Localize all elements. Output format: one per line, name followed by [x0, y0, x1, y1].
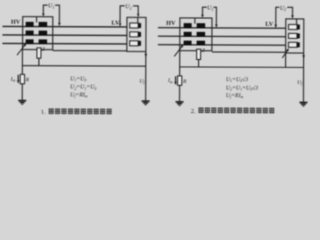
transformer T2 tank circuit 2	[180, 18, 212, 51]
wire fault path to earth conductor circuit 2	[285, 53, 287, 67]
transformer T2 secondary winding bars	[197, 23, 206, 45]
resistor R1 body	[20, 74, 24, 83]
breakdown device slash on T1	[17, 45, 25, 55]
voltage U2 arrow to LV box circuit 1	[137, 14, 140, 17]
wire neutral N circuit 2	[212, 51, 286, 53]
transformer T1 primary winding bars	[26, 22, 34, 44]
wire LV load core stub circuit 1	[137, 17, 139, 23]
fault slash on LV load circuit 2	[282, 50, 287, 58]
LV load box circuit 1	[127, 17, 146, 51]
LV load box circuit 2	[286, 19, 304, 53]
svg-text:1.: 1.	[41, 109, 46, 116]
wire Uf branch circuit 1	[145, 52, 147, 102]
transformer T1 secondary winding bars	[39, 22, 48, 44]
wire LV load core stub circuit 2	[296, 19, 298, 25]
svg-text:U1: U1	[48, 4, 54, 10]
wire earth conductor circuit 2	[180, 66, 304, 69]
voltage U2 arrow to line circuit 1	[119, 23, 122, 26]
current Im arrow circuit 1	[17, 75, 19, 81]
fault arrowhead on LV load circuit 2	[286, 48, 289, 51]
impedance Z1 body	[37, 48, 41, 58]
wire Z1 to earth conductor	[38, 58, 40, 65]
svg-text:2.: 2.	[191, 108, 196, 115]
svg-text:R: R	[25, 77, 30, 83]
svg-text:U2: U2	[280, 6, 286, 12]
svg-text:U1=U0: U1=U0	[70, 76, 86, 82]
wire neutral N circuit 1	[53, 50, 127, 52]
transformer T1 tank circuit 1	[23, 17, 53, 50]
svg-text:U2: U2	[125, 4, 131, 10]
voltage U2 measurement bracket circuit 1	[120, 6, 138, 24]
svg-text:R: R	[182, 79, 187, 85]
voltage U1 measurement bracket circuit 2	[202, 7, 216, 24]
breakdown device slash on T2	[174, 46, 182, 56]
wire T2 tank to resistor R2	[179, 51, 181, 76]
voltage U2 arrow to LV box circuit 2	[291, 15, 294, 18]
wire phase L3 circuit 1	[2, 42, 126, 45]
wire R1 to ground	[21, 84, 23, 101]
wire phase L2 circuit 1	[2, 34, 126, 37]
svg-text:HV: HV	[11, 19, 21, 26]
wire earth conductor circuit 1	[22, 65, 145, 68]
wire Z2 to earth conductor	[198, 59, 200, 66]
LV load winding 3 circuit 2	[288, 42, 299, 47]
voltage Uf arrow circuit 2	[302, 55, 305, 59]
breakdown device arrowhead on T1	[23, 43, 26, 46]
wire T1 core stub	[36, 17, 38, 23]
resistor R2 body	[177, 76, 181, 85]
wire T2 core stub	[194, 18, 196, 24]
LV load winding 2 circuit 2	[289, 33, 300, 38]
voltage U1 arrow to transformer tank	[42, 14, 45, 17]
impedance Z2 body	[197, 49, 201, 59]
wire Uf branch circuit 2	[302, 53, 304, 102]
ground below R1	[18, 101, 26, 105]
svg-text:U1=U0√3: U1=U0√3	[226, 76, 248, 83]
breakdown device arrowhead on T2	[181, 44, 184, 47]
svg-text:HV: HV	[166, 20, 176, 27]
caption 1 chinese text blobs	[49, 108, 112, 114]
wire phase L1 circuit 2	[158, 27, 286, 30]
LV load winding 1 circuit 1	[130, 23, 141, 28]
voltage U1 arrow to line circuit 2	[215, 24, 218, 27]
ground below R2	[176, 102, 184, 106]
LV load winding 1 circuit 2	[289, 24, 300, 29]
voltage U1 arrow to transformer tank circuit 2	[201, 15, 204, 18]
svg-text:LV: LV	[265, 21, 274, 28]
LV load winding 3 circuit 1	[130, 41, 141, 46]
equations circuit 2	[226, 76, 258, 99]
ground below Uf circuit 2	[299, 102, 307, 106]
LV load winding 2 circuit 1	[130, 32, 141, 37]
wire R2 to ground	[179, 85, 181, 102]
wire phase L2 circuit 2	[158, 35, 286, 38]
voltage U1 measurement bracket circuit 1	[43, 5, 59, 23]
current Im arrow circuit 2	[175, 76, 177, 82]
equations circuit 1	[70, 76, 96, 98]
caption 2 chinese text blobs	[198, 107, 274, 113]
svg-text:U1: U1	[207, 6, 213, 12]
ground below Uf circuit 1	[142, 101, 150, 105]
svg-text:LV: LV	[111, 20, 120, 27]
wire phase L1 circuit 1	[2, 25, 126, 28]
svg-text:U2=U1=U0: U2=U1=U0	[70, 85, 96, 91]
voltage Uf arrow circuit 1	[145, 54, 148, 58]
voltage U2 arrow to line circuit 2	[274, 25, 277, 28]
voltage U1 arrow to line	[58, 23, 61, 26]
wire phase L3 circuit 2	[158, 44, 286, 47]
wire T1 tank to resistor R1	[21, 50, 23, 75]
transformer T2 primary winding bars	[184, 23, 192, 45]
voltage U2 measurement bracket circuit 2	[276, 7, 293, 25]
